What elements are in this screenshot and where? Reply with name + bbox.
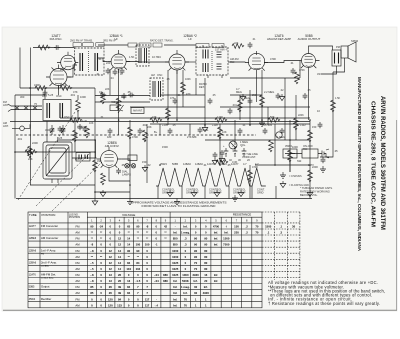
FM trimmer cluster labels bbox=[82, 38, 256, 125]
legend: chassis symbol bbox=[280, 172, 302, 178]
svg-text:POSITION: POSITION bbox=[69, 217, 80, 219]
wire x20 antenna drop bbox=[19, 48, 21, 89]
svg-text:FM: FM bbox=[75, 225, 80, 229]
svg-text:50B5: 50B5 bbox=[172, 162, 179, 166]
vertical wire V3 cathode bbox=[176, 70, 178, 120]
svg-text:150: 150 bbox=[312, 125, 317, 129]
FM antenna twisted line input bbox=[8, 104, 42, 112]
svg-text:.001: .001 bbox=[17, 137, 23, 141]
loudspeaker LS1 bbox=[341, 42, 356, 62]
svg-text:B+: B+ bbox=[154, 130, 158, 134]
resistor R11 bbox=[248, 170, 253, 182]
vertical wire x285 bbox=[284, 78, 286, 140]
svg-text:.002: .002 bbox=[142, 123, 148, 127]
tube V1b 12AT7 oscillator triode bbox=[57, 52, 78, 70]
svg-text:470K: 470K bbox=[132, 135, 138, 139]
svg-text:AM ANT.: AM ANT. bbox=[133, 110, 143, 113]
resistor R32 bbox=[295, 72, 300, 84]
electrolytic C22 bbox=[241, 145, 246, 157]
svg-text:AM Converter: AM Converter bbox=[41, 236, 58, 240]
svg-text:RATIO DET. TRANS.: RATIO DET. TRANS. bbox=[150, 40, 174, 43]
svg-text:35W4: 35W4 bbox=[160, 162, 167, 166]
svg-text:3RD FM I-F: 3RD FM I-F bbox=[103, 40, 117, 43]
capacitor C28 bbox=[276, 93, 281, 99]
svg-text:FROM SOCKET LUGS TO FLOATING G: FROM SOCKET LUGS TO FLOATING GROUND bbox=[142, 204, 217, 208]
svg-text:3-30: 3-30 bbox=[82, 120, 88, 123]
capacitor C8 bbox=[263, 128, 268, 134]
svg-text:AM: AM bbox=[75, 243, 80, 247]
table row labels bbox=[29, 224, 81, 307]
capacitor C10 bbox=[116, 168, 121, 174]
vertical wire T5 secondary down bbox=[204, 78, 206, 125]
table dashed extension columns bbox=[262, 212, 300, 280]
vertical wire x235 bbox=[234, 120, 236, 145]
svg-text:.02: .02 bbox=[280, 89, 284, 92]
IF transformer T3 (2nd FM IF can) bbox=[136, 45, 149, 66]
legend: tubular caps note bbox=[300, 186, 333, 197]
svg-text:33K: 33K bbox=[97, 159, 102, 163]
vertical wire x15 bbox=[14, 95, 16, 199]
bus wire y152 bbox=[15, 151, 95, 153]
svg-text:.05: .05 bbox=[212, 94, 216, 97]
vertical wire x95 bbox=[94, 88, 96, 199]
svg-text:1 MEG: 1 MEG bbox=[77, 125, 85, 129]
svg-text:1200: 1200 bbox=[217, 115, 223, 119]
vertical wire x110 bbox=[109, 69, 111, 95]
vertical wire x290 bbox=[289, 120, 291, 172]
AM antenna jack J1 bbox=[12, 124, 30, 130]
wire top of loop bbox=[58, 140, 96, 158]
svg-text:250: 250 bbox=[252, 94, 257, 97]
svg-text:.01: .01 bbox=[177, 94, 181, 97]
capacitor C36 bbox=[248, 42, 253, 48]
svg-text:12K: 12K bbox=[27, 147, 32, 151]
svg-text:100K: 100K bbox=[185, 78, 191, 81]
band switch dashed gang lines bbox=[18, 112, 102, 211]
tube V1 12AT7 FM converter bbox=[46, 65, 71, 90]
svg-text:.001: .001 bbox=[232, 104, 237, 107]
wire V1 cathode down bbox=[58, 86, 60, 96]
svg-text:.02: .02 bbox=[147, 163, 151, 167]
svg-text:VOLTAGE: VOLTAGE bbox=[122, 213, 135, 217]
vertical wire x196 bbox=[195, 78, 197, 95]
label TO THE LINE CORD bbox=[242, 152, 258, 159]
svg-text:1st I-F Amp.: 1st I-F Amp. bbox=[41, 248, 56, 252]
svg-text:.01: .01 bbox=[252, 38, 256, 41]
capacitor C17 bbox=[318, 122, 323, 128]
svg-text:TUBE: TUBE bbox=[29, 213, 37, 217]
vertical wire x250 lower bbox=[249, 165, 251, 199]
resistor R35 bbox=[38, 45, 50, 50]
page right edge shadow bbox=[396, 120, 398, 310]
wire x78 bbox=[77, 95, 79, 121]
svg-text:DET.: DET. bbox=[199, 85, 205, 89]
legend: floating ground symbol bbox=[280, 181, 310, 188]
table column numbers bbox=[91, 218, 258, 222]
svg-text:300: 300 bbox=[20, 95, 25, 99]
svg-text:I-F: I-F bbox=[188, 37, 192, 41]
svg-text:12BE6: 12BE6 bbox=[219, 162, 227, 166]
capacitor C32 bbox=[106, 68, 111, 74]
resistor R39 under 12BE6 bbox=[101, 173, 106, 185]
svg-text:12BA6: 12BA6 bbox=[195, 162, 203, 166]
resistor R5 bbox=[93, 160, 98, 172]
IF transformer T2 (1st FM IF can) bbox=[75, 48, 105, 75]
wire y95.5 bbox=[95, 95, 150, 97]
wire V1 plate to T2 bbox=[67, 65, 77, 77]
svg-text:RATED 200V WORKING: RATED 200V WORKING bbox=[300, 190, 330, 194]
svg-text:470K: 470K bbox=[270, 57, 276, 61]
svg-text:AM: AM bbox=[75, 231, 80, 235]
vertical wire x75 bbox=[74, 120, 76, 152]
svg-text:5-25: 5-25 bbox=[57, 136, 63, 140]
svg-text:GRID CAP: GRID CAP bbox=[162, 191, 175, 195]
svg-text:47K: 47K bbox=[152, 115, 157, 119]
vertical wire x220 bbox=[219, 124, 221, 165]
svg-text:FM: FM bbox=[75, 249, 80, 253]
vertical wire V5 down bbox=[308, 72, 310, 121]
svg-text:1000: 1000 bbox=[292, 145, 298, 149]
vertical wire x296 bbox=[295, 95, 297, 140]
svg-text:22K: 22K bbox=[28, 157, 33, 161]
svg-text:10K: 10K bbox=[222, 130, 227, 134]
svg-text:= CHASSIS: = CHASSIS bbox=[289, 175, 302, 178]
vertical wire x275 bbox=[274, 124, 276, 165]
wire y95 mid bbox=[160, 94, 262, 96]
capacitor C31 bbox=[54, 45, 60, 50]
resistor R15 bbox=[308, 170, 313, 182]
ratio detector transformer T5 bbox=[196, 45, 228, 78]
svg-text:MANUFACTURED BY NOBLITT-SPARKS: MANUFACTURED BY NOBLITT-SPARKS INDUSTRIE… bbox=[357, 77, 362, 252]
svg-text:+112: +112 bbox=[300, 123, 306, 127]
resistor R27 bbox=[260, 95, 265, 107]
svg-text:22K: 22K bbox=[105, 88, 110, 91]
bus wire y140 bbox=[205, 139, 310, 141]
dashed AVC bus bbox=[16, 134, 256, 136]
svg-text:1.5K: 1.5K bbox=[335, 97, 340, 100]
resistor R28 bbox=[166, 108, 171, 120]
ground chassis at x235 bbox=[232, 195, 238, 201]
vertical wire V4 down bbox=[249, 90, 251, 125]
table data values bbox=[90, 225, 295, 308]
svg-text:10K: 10K bbox=[89, 122, 94, 125]
svg-text:.05: .05 bbox=[307, 89, 311, 92]
svg-text:RESISTANCE: RESISTANCE bbox=[233, 213, 251, 217]
resistor R26 bbox=[116, 98, 121, 110]
capacitor C27 bbox=[248, 98, 253, 104]
svg-text:AM-FM Det.: AM-FM Det. bbox=[41, 273, 56, 277]
line cord plug P1 bbox=[318, 149, 329, 158]
vertical wire x45 bbox=[44, 88, 46, 99]
wire y102 bbox=[95, 101, 150, 103]
footnotes text bbox=[268, 280, 385, 306]
svg-text:1500: 1500 bbox=[162, 145, 168, 149]
svg-text:AM: AM bbox=[75, 291, 80, 295]
svg-text:470K: 470K bbox=[34, 83, 40, 87]
floating ground at x95 bbox=[92, 199, 98, 206]
capacitor C12 bbox=[213, 152, 218, 158]
svg-text:AM: AM bbox=[75, 279, 80, 283]
capacitor C4 bbox=[138, 128, 143, 134]
svg-text:12BA6: 12BA6 bbox=[29, 249, 37, 252]
wire V6 plate bbox=[121, 159, 130, 165]
capacitor C13 bbox=[220, 150, 225, 156]
trimmer capacitor C18 bbox=[50, 125, 55, 135]
capacitor C25 bbox=[208, 98, 213, 104]
capacitor C16 bbox=[43, 90, 48, 96]
wire T2 to V2 bbox=[98, 58, 107, 62]
svg-text:FM: FM bbox=[75, 237, 80, 241]
svg-text:1 MEG: 1 MEG bbox=[242, 97, 250, 100]
IF can T5 boxed part labels bbox=[196, 44, 224, 48]
resistor R33 bbox=[294, 118, 299, 130]
resistor R18 bbox=[215, 118, 227, 123]
svg-text:GRID CAP: GRID CAP bbox=[209, 191, 222, 195]
svg-text:35W4: 35W4 bbox=[285, 144, 292, 148]
svg-text:100K: 100K bbox=[80, 95, 86, 99]
resistor R14 bbox=[308, 130, 313, 142]
capacitor C2 bbox=[83, 126, 88, 132]
resistor R4 bbox=[73, 130, 78, 142]
capacitor C37 bbox=[291, 68, 296, 74]
page bottom edge shadow bbox=[3, 309, 397, 311]
capacitor C34 bbox=[120, 68, 125, 74]
svg-text:1 MEG: 1 MEG bbox=[277, 135, 285, 139]
svg-text:56K: 56K bbox=[270, 115, 275, 119]
svg-text:10K: 10K bbox=[60, 83, 65, 87]
svg-text:AM: AM bbox=[75, 303, 80, 307]
svg-text:470: 470 bbox=[186, 92, 191, 96]
vertical wire x47 coil to bus bbox=[46, 121, 48, 142]
wire loop to V6 bbox=[72, 157, 97, 159]
wire V4 to V5 bbox=[264, 61, 298, 63]
svg-text:117V: 117V bbox=[308, 163, 314, 167]
svg-text:12BA6: 12BA6 bbox=[29, 262, 37, 265]
svg-text:1.5K: 1.5K bbox=[129, 55, 135, 59]
resistor R37 bbox=[85, 126, 90, 138]
svg-text:4.7: 4.7 bbox=[255, 162, 259, 166]
svg-text:5-25: 5-25 bbox=[48, 93, 54, 97]
floating ground at x205 bbox=[202, 125, 208, 132]
ground under V4 divider bbox=[240, 94, 246, 101]
wire y45 top link bbox=[98, 44, 196, 46]
svg-text:ANT: ANT bbox=[42, 94, 48, 98]
svg-text:FM Converter: FM Converter bbox=[41, 224, 58, 228]
capacitor C3 bbox=[108, 128, 113, 134]
svg-text:AM: AM bbox=[75, 267, 80, 271]
svg-text:2.2 MEG: 2.2 MEG bbox=[264, 90, 274, 94]
capacitor C35 bbox=[78, 124, 83, 130]
resistor R3 bbox=[28, 146, 33, 158]
tube V5 50B5 audio output bbox=[298, 50, 320, 72]
svg-text:BEFORE VOL.: BEFORE VOL. bbox=[300, 193, 318, 197]
svg-text:470K: 470K bbox=[299, 69, 305, 72]
main B+ bus wire bbox=[60, 117, 310, 119]
svg-text:* TUBULAR PAPER CAPS.: * TUBULAR PAPER CAPS. bbox=[300, 186, 333, 190]
svg-text:GRID CAP: GRID CAP bbox=[233, 191, 246, 195]
floating ground at x310 bbox=[307, 190, 313, 197]
svg-text:220K: 220K bbox=[32, 141, 38, 145]
vertical wire x168 bbox=[167, 70, 169, 125]
svg-text:50B5: 50B5 bbox=[29, 286, 35, 289]
svg-text:† Resistance readings at these: † Resistance readings at these points wi… bbox=[268, 301, 380, 306]
svg-text:PM: PM bbox=[336, 45, 340, 49]
trimmer capacitor C19 bbox=[61, 125, 66, 135]
svg-text:Rectifier: Rectifier bbox=[41, 297, 51, 301]
wire V2 to V3 bbox=[126, 61, 169, 64]
wire x340 speaker return bbox=[333, 58, 345, 72]
floating ground at x145 bbox=[142, 165, 148, 172]
table header group line bbox=[87, 216, 262, 218]
resistor R6 bbox=[128, 127, 133, 139]
capacitor C5 bbox=[168, 128, 173, 134]
svg-text:1ST AM I-F: 1ST AM I-F bbox=[215, 49, 228, 52]
wire x333 output B+ drop bbox=[320, 72, 333, 157]
resistor R7 bbox=[143, 130, 148, 142]
line bypass capacitor C23 bbox=[320, 157, 326, 172]
resistor R31 bbox=[238, 100, 243, 112]
ground row under filament string bbox=[167, 190, 173, 197]
component value labels bbox=[3, 39, 358, 195]
wire y47.5 B+ top left bbox=[33, 47, 75, 49]
svg-text:100: 100 bbox=[121, 95, 126, 99]
vertical wire x190 bbox=[189, 124, 191, 135]
tube V4 12AT6 detector / 1st audio bbox=[245, 51, 268, 74]
svg-text:AM: AM bbox=[75, 255, 80, 259]
AM antenna coil box bbox=[131, 108, 144, 114]
svg-text:.01: .01 bbox=[290, 61, 294, 65]
resistor R1 bbox=[35, 86, 47, 91]
table row lines bbox=[28, 223, 262, 302]
ground under C12 bbox=[212, 158, 218, 165]
ground under R39 bbox=[100, 190, 106, 197]
svg-text:SW.: SW. bbox=[303, 147, 308, 151]
svg-text:VOL.: VOL. bbox=[240, 143, 246, 147]
svg-text:FM: FM bbox=[75, 261, 80, 265]
svg-text:OSC: OSC bbox=[64, 115, 70, 119]
svg-text:22K: 22K bbox=[234, 42, 239, 45]
wire line cord to bus bbox=[290, 154, 302, 173]
svg-text:POSITION: POSITION bbox=[42, 213, 56, 217]
resistor R13 bbox=[288, 150, 293, 162]
svg-text:CHASSIS RE-289, 8 TUBE AC-DC,: CHASSIS RE-289, 8 TUBE AC-DC, AM-FM bbox=[369, 101, 375, 227]
svg-text:180: 180 bbox=[107, 135, 112, 139]
svg-text:FM: FM bbox=[75, 273, 80, 277]
svg-text:FM-OSC.: FM-OSC. bbox=[50, 37, 63, 41]
svg-text:.05: .05 bbox=[166, 77, 170, 81]
resistor R16 bbox=[70, 118, 82, 123]
vertical wire x30 bbox=[30, 48, 32, 186]
dial lamps I1 I2 bbox=[125, 164, 129, 168]
svg-text:.01: .01 bbox=[98, 57, 102, 61]
svg-text:.05: .05 bbox=[127, 90, 131, 94]
resistor R19 bbox=[268, 118, 280, 123]
bus wire y121.5 bbox=[10, 121, 310, 123]
svg-text:.0001: .0001 bbox=[202, 128, 209, 132]
table title bbox=[131, 200, 227, 207]
AM loop antenna bbox=[43, 142, 72, 183]
AM IF trap box bbox=[110, 105, 118, 111]
wire V6 cathode down bbox=[109, 171, 130, 181]
svg-text:ANT.: ANT. bbox=[3, 103, 9, 107]
svg-text:2nd I-F Amp.: 2nd I-F Amp. bbox=[41, 261, 57, 265]
svg-text:2ND FM I-F TRANS.: 2ND FM I-F TRANS. bbox=[70, 40, 93, 43]
electrolytic C20 bbox=[223, 145, 228, 157]
junction dots bbox=[14, 87, 311, 193]
svg-text:AUDIO OUTPUT: AUDIO OUTPUT bbox=[298, 37, 321, 41]
svg-text:22K: 22K bbox=[147, 125, 152, 129]
svg-text:3-30: 3-30 bbox=[45, 128, 51, 132]
filament string resistors bbox=[156, 168, 276, 199]
svg-text:LUG NO.: LUG NO. bbox=[69, 214, 79, 216]
svg-text:GRID: GRID bbox=[257, 191, 264, 195]
vertical wire V2 cathode bbox=[118, 69, 120, 135]
svg-text:12AT7: 12AT7 bbox=[231, 162, 239, 166]
vertical wire x240 bbox=[239, 95, 241, 120]
IF can T2 boxed part labels bbox=[73, 43, 104, 47]
ground chassis at x262 bbox=[259, 120, 265, 126]
svg-text:+118: +118 bbox=[212, 123, 218, 127]
svg-text:68K: 68K bbox=[192, 135, 197, 139]
capacitor C1 bbox=[58, 126, 63, 132]
resistor R29 bbox=[181, 82, 186, 94]
wire V4 cathode drop bbox=[256, 74, 258, 102]
resistor R2 bbox=[60, 86, 72, 91]
svg-text:220: 220 bbox=[106, 61, 111, 65]
resistor R17 bbox=[150, 118, 162, 123]
svg-text:.001: .001 bbox=[70, 93, 76, 97]
FM RF coil L1 bbox=[43, 100, 71, 121]
svg-text:AM-FM DET-AMP: AM-FM DET-AMP bbox=[267, 37, 291, 41]
ground x282 bbox=[279, 94, 285, 101]
grid cap labels small text row bbox=[70, 40, 311, 118]
svg-text:.05: .05 bbox=[121, 163, 125, 167]
svg-text:27K: 27K bbox=[187, 135, 192, 139]
resistor R41 bbox=[76, 100, 81, 112]
capacitor C15 bbox=[128, 93, 134, 98]
bottom ground bus wire bbox=[16, 198, 312, 200]
bus wire y124 bbox=[150, 123, 310, 125]
ground chassis at x130 bbox=[127, 199, 133, 205]
svg-text:12AT7: 12AT7 bbox=[29, 225, 37, 228]
svg-text:AM CONV.: AM CONV. bbox=[105, 144, 120, 148]
wire: transformer to speaker bbox=[340, 52, 342, 62]
table column lines bbox=[40, 212, 87, 308]
capacitor C9 bbox=[280, 128, 285, 134]
AM osc coil L3 bbox=[76, 153, 90, 162]
resistor R10 bbox=[218, 127, 223, 139]
svg-text:.005: .005 bbox=[267, 123, 273, 127]
svg-text:.05: .05 bbox=[172, 123, 176, 127]
capacitor C24 bbox=[173, 98, 178, 104]
svg-text:ARVIN RADIOS, MODELS 360TFM AN: ARVIN RADIOS, MODELS 360TFM AND 361TFM bbox=[379, 96, 385, 230]
resistor R34 bbox=[101, 92, 106, 104]
svg-text:12BE6: 12BE6 bbox=[29, 237, 37, 240]
svg-text:.04: .04 bbox=[110, 77, 114, 80]
tone switch S2 bbox=[276, 132, 282, 138]
resistor R12 bbox=[269, 140, 274, 152]
capacitor C7 bbox=[238, 128, 243, 134]
svg-text:LOOP: LOOP bbox=[75, 157, 82, 161]
svg-text:GRID CAP: GRID CAP bbox=[186, 191, 199, 195]
svg-text:OSC: OSC bbox=[56, 94, 62, 98]
wire y88 left bbox=[20, 87, 95, 89]
AM filament wire y165 bbox=[255, 164, 310, 166]
wire y95 left bbox=[15, 94, 45, 96]
bus wire y192 bbox=[95, 191, 130, 193]
tube V2 12BA6 1st FM IF bbox=[107, 50, 130, 73]
bus wire y185 bbox=[30, 184, 95, 186]
